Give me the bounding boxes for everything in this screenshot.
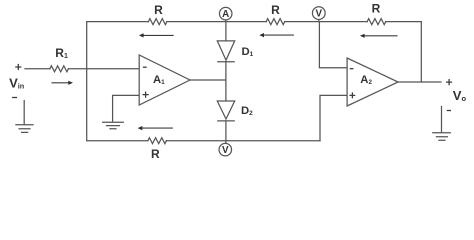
minus (A1 inverting) <box>143 66 147 68</box>
current arrow (top-left R, pointing left) <box>139 33 174 37</box>
wire bottom from R to A2 plus branch <box>166 140 320 142</box>
wire A1 output <box>190 79 226 81</box>
ground (Vo output) <box>433 107 451 141</box>
node V top <box>312 7 325 20</box>
svg-text:Vo: Vo <box>453 88 467 103</box>
wire D2 cathode to node V bottom <box>225 121 227 143</box>
svg-text:R: R <box>151 147 160 161</box>
wire node V top stub <box>318 20 320 22</box>
current arrow (top-right R, pointing left) <box>360 34 398 38</box>
plus (input source) <box>15 64 21 70</box>
diode D1 <box>217 41 234 60</box>
svg-text:R1: R1 <box>55 46 68 60</box>
minus (input source) <box>12 97 17 99</box>
wire D1 cathode to D2 anode <box>225 62 227 101</box>
wire input to A1 inverting input <box>68 68 139 70</box>
op-amp A1 <box>139 55 190 105</box>
wire A2 inverting input branch <box>319 22 347 68</box>
diode D2 <box>217 101 234 119</box>
ground (Vin source) <box>16 101 33 133</box>
svg-text:V: V <box>316 8 323 19</box>
wire top between R feedback and node A and on to middle R <box>167 21 266 23</box>
wire right feedback vertical <box>420 22 422 82</box>
resistor R (bottom) <box>148 138 167 144</box>
wire top between node V and right R <box>285 21 368 23</box>
wire A2 output <box>398 81 441 83</box>
resistor R1 <box>50 66 68 72</box>
minus (output) <box>447 110 451 112</box>
op-amp A2 <box>347 58 398 106</box>
ground (A1 plus input) <box>103 122 124 128</box>
wire top-left horizontal segment <box>87 21 149 23</box>
plus (A2 non-inverting) <box>349 92 355 98</box>
wire top-right to corner <box>386 21 422 23</box>
node V bottom <box>219 143 232 156</box>
wire A1 non-inverting input to ground <box>113 95 140 121</box>
current arrow (bottom R, pointing left) <box>138 126 173 130</box>
wire node A to D1 anode <box>225 20 227 41</box>
resistor R (top-right) <box>367 19 386 25</box>
node A <box>219 7 232 20</box>
svg-text:R: R <box>372 2 381 16</box>
wire left feedback vertical <box>86 22 88 141</box>
wire bottom-left segment <box>87 140 148 142</box>
plus (output) <box>446 79 452 85</box>
current arrow (top-middle R, pointing left) <box>259 33 294 37</box>
resistor R (top-left) <box>148 19 167 25</box>
svg-text:D1: D1 <box>242 46 254 58</box>
wire A2 non-inverting input branch <box>320 95 347 140</box>
svg-text:R: R <box>271 3 280 17</box>
current arrow (input R1, pointing right) <box>52 81 74 85</box>
svg-text:A: A <box>222 9 229 20</box>
svg-text:V: V <box>222 145 229 156</box>
svg-text:Vin: Vin <box>9 75 24 90</box>
svg-text:D2: D2 <box>241 105 253 117</box>
wire input left lead <box>25 68 50 70</box>
resistor R (top-middle) <box>266 19 285 25</box>
plus (A1 non-inverting) <box>143 92 149 98</box>
minus (A2 inverting) <box>350 68 354 70</box>
svg-text:R: R <box>154 3 163 17</box>
